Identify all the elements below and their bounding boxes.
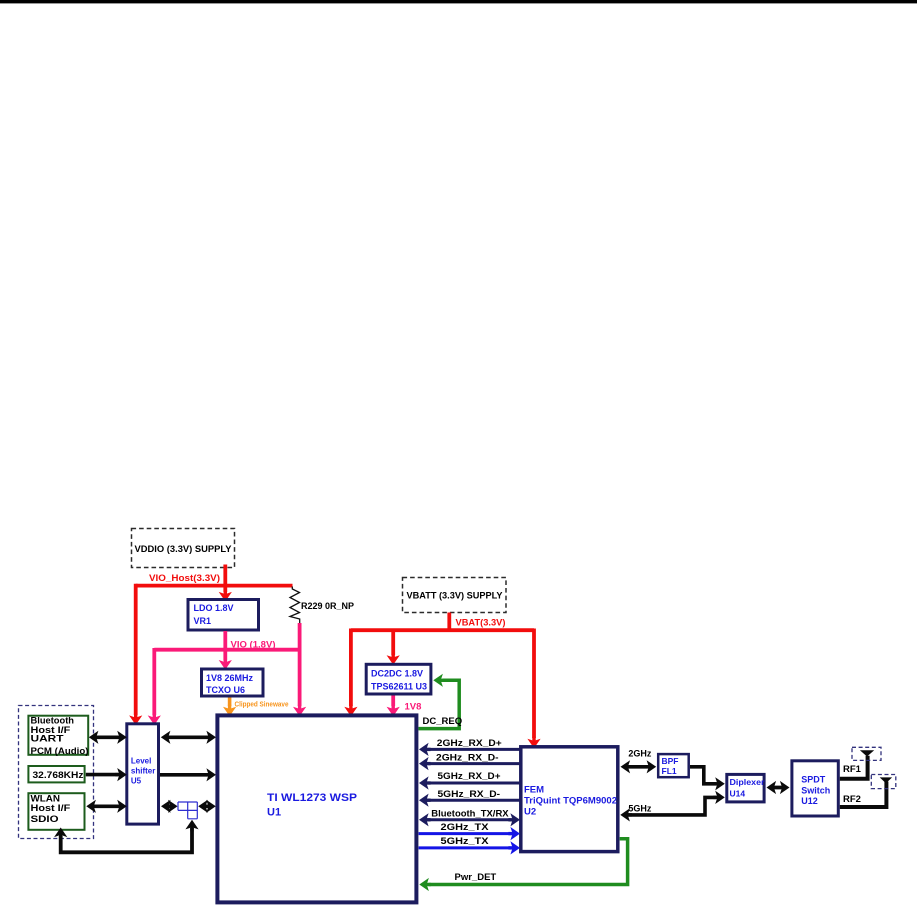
wire VBAT(3.3V) red net bbox=[344, 613, 540, 749]
svg-text:DC2DC 1.8V: DC2DC 1.8V bbox=[371, 669, 423, 679]
wire red down to level shifter bbox=[129, 584, 142, 725]
svg-text:BPF: BPF bbox=[662, 756, 679, 766]
FEM U2 TriQuint bbox=[521, 747, 618, 852]
SPDT switch U12 bbox=[792, 761, 838, 816]
svg-text:TCXO U6: TCXO U6 bbox=[206, 685, 245, 695]
junction component (blue) bbox=[178, 802, 197, 819]
bus 5GHz_RX_D+ bbox=[419, 771, 520, 790]
bus 5GHz_RX_D- bbox=[419, 789, 520, 807]
svg-text:U14: U14 bbox=[730, 789, 746, 799]
wire DC_REQ green bbox=[419, 674, 463, 729]
svg-text:5GHz_RX_D-: 5GHz_RX_D- bbox=[438, 789, 501, 800]
bus 2GHz_RX_D- bbox=[419, 752, 520, 770]
wire RF2 bbox=[840, 782, 887, 808]
bus 2GHz_TX bbox=[419, 822, 520, 840]
antenna ANT2 bbox=[871, 775, 896, 789]
svg-text:TPS62611 U3: TPS62611 U3 bbox=[371, 682, 427, 692]
svg-text:RF1: RF1 bbox=[843, 764, 862, 775]
svg-text:shifter: shifter bbox=[131, 767, 155, 776]
svg-text:U12: U12 bbox=[801, 796, 818, 806]
svg-text:Switch: Switch bbox=[801, 785, 830, 795]
svg-text:32.768KHz: 32.768KHz bbox=[33, 770, 84, 780]
svg-text:Bluetooth_TX/RX: Bluetooth_TX/RX bbox=[431, 808, 509, 819]
supply VDDIO (3.3V) dashed box bbox=[132, 529, 235, 568]
svg-text:Level: Level bbox=[131, 757, 151, 766]
level shifter U5 bbox=[127, 724, 159, 824]
wire Pwr_DET green bbox=[419, 839, 627, 891]
svg-text:Host I/F: Host I/F bbox=[31, 803, 71, 813]
svg-text:2GHz: 2GHz bbox=[628, 749, 652, 759]
svg-text:LDO 1.8V: LDO 1.8V bbox=[194, 603, 234, 613]
svg-text:5GHz_RX_D+: 5GHz_RX_D+ bbox=[438, 771, 501, 782]
wire 1V8 pink bbox=[387, 696, 422, 717]
svg-text:TI WL1273 WSP: TI WL1273 WSP bbox=[267, 792, 357, 804]
oscillator TCXO U6 bbox=[202, 669, 264, 696]
wire 5GHz U2 to diplexer bbox=[620, 791, 725, 822]
wire VIO (1.8V) pink net bbox=[148, 623, 307, 725]
wire level shifter to U1 slow clock bbox=[160, 768, 216, 781]
wire VIO_Host horizontal (red) bbox=[136, 584, 293, 588]
svg-text:Diplexer: Diplexer bbox=[730, 777, 766, 787]
svg-text:U5: U5 bbox=[131, 777, 142, 786]
filter BPF FL1 bbox=[658, 754, 689, 777]
wire clipped sinewave (orange) bbox=[223, 698, 289, 717]
svg-text:Pwr_DET: Pwr_DET bbox=[455, 872, 497, 883]
svg-text:U2: U2 bbox=[524, 806, 536, 817]
Bluetooth Host I/F box bbox=[28, 716, 88, 756]
wire 32K to level shifter bbox=[86, 768, 127, 781]
svg-text:VBATT (3.3V) SUPPLY: VBATT (3.3V) SUPPLY bbox=[407, 591, 504, 602]
wire RF1 bbox=[840, 756, 868, 779]
svg-text:VBAT(3.3V): VBAT(3.3V) bbox=[456, 618, 506, 629]
svg-text:U1: U1 bbox=[267, 807, 281, 819]
supply VBATT (3.3V) dashed box bbox=[403, 578, 507, 613]
chip U1 TI WL1273 WSP bbox=[217, 715, 416, 902]
svg-text:R229 0R_NP: R229 0R_NP bbox=[301, 601, 355, 612]
wire WLAN bottom loop bbox=[54, 820, 199, 853]
regulator LDO VR1 bbox=[188, 600, 259, 631]
wire 2GHz U2 to BPF (double arrow) bbox=[621, 749, 657, 774]
wire diplexer to SPDT (double arrow) bbox=[767, 781, 790, 794]
svg-text:1V8 26MHz: 1V8 26MHz bbox=[206, 673, 254, 683]
top border bar bbox=[0, 0, 917, 3]
svg-text:RF2: RF2 bbox=[843, 794, 861, 805]
svg-text:SDIO: SDIO bbox=[31, 814, 59, 824]
bus 2GHz_RX_D+ bbox=[419, 738, 520, 756]
wire level shifter to junction (double arrow) bbox=[161, 800, 178, 813]
host interface dashed box bbox=[19, 706, 94, 839]
svg-text:2GHz_TX: 2GHz_TX bbox=[441, 822, 490, 833]
resistor R229 0R_NP bbox=[290, 587, 355, 625]
svg-text:VR1: VR1 bbox=[194, 616, 212, 626]
WLAN Host I/F SDIO box bbox=[28, 793, 84, 830]
svg-text:DC_REQ: DC_REQ bbox=[423, 716, 463, 727]
svg-text:PCM (Audio): PCM (Audio) bbox=[31, 746, 89, 756]
wire WLAN to level shifter (double arrow) bbox=[86, 800, 127, 813]
svg-text:FEM: FEM bbox=[524, 785, 544, 796]
svg-text:UART: UART bbox=[31, 734, 64, 744]
regulator DC2DC U3 bbox=[366, 664, 431, 694]
antenna ANT1 bbox=[852, 747, 881, 760]
svg-text:VDDIO (3.3V) SUPPLY: VDDIO (3.3V) SUPPLY bbox=[135, 544, 233, 555]
wire BPF to diplexer bbox=[690, 767, 725, 791]
wire Bluetooth to level shifter (double arrow) bbox=[89, 731, 127, 744]
svg-text:Clipped Sinewave: Clipped Sinewave bbox=[235, 702, 289, 709]
svg-text:TriQuint TQP6M9002: TriQuint TQP6M9002 bbox=[524, 795, 617, 806]
svg-text:5GHz_TX: 5GHz_TX bbox=[441, 836, 490, 847]
svg-text:1V8: 1V8 bbox=[405, 702, 422, 713]
svg-text:2GHz_RX_D+: 2GHz_RX_D+ bbox=[437, 738, 502, 749]
wire junction to U1 sdio (double arrow) bbox=[198, 800, 216, 813]
bus Bluetooth_TX/RX bbox=[419, 808, 520, 826]
svg-text:2GHz_RX_D-: 2GHz_RX_D- bbox=[436, 752, 499, 763]
bus 5GHz_TX bbox=[419, 836, 520, 855]
wire level shifter to U1 uart (double arrow) bbox=[161, 731, 216, 744]
svg-text:VIO (1.8V): VIO (1.8V) bbox=[231, 640, 276, 651]
svg-text:VIO_Host(3.3V): VIO_Host(3.3V) bbox=[149, 573, 220, 584]
clock 32.768KHz box bbox=[28, 766, 84, 782]
wire VDDIO to LDO (red) bbox=[219, 565, 232, 602]
svg-text:SPDT: SPDT bbox=[801, 774, 826, 784]
svg-text:5GHz: 5GHz bbox=[628, 804, 652, 814]
diplexer U14 bbox=[727, 774, 765, 802]
svg-text:FL1: FL1 bbox=[662, 766, 677, 776]
